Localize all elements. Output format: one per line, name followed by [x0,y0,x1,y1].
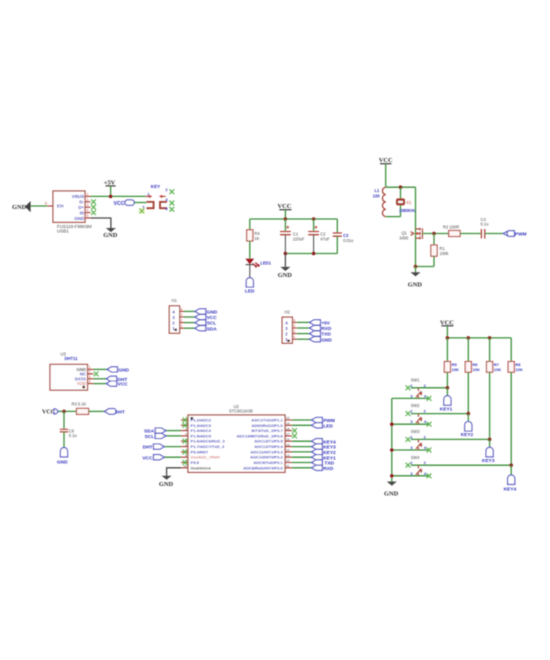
svg-text:KEY3: KEY3 [482,458,495,464]
wire GND flag to EH [31,205,48,207]
wire SDA port to U2 [166,430,181,432]
pin 5 GND [85,214,91,218]
svg-text:6: 6 [45,201,47,205]
wire H1 pin2 to SCL port [184,322,195,324]
svg-text:3: 3 [181,313,183,317]
net port GND (H1) [195,309,218,316]
net port SDA (H1) [195,326,217,333]
net port RXD (H2) [310,325,332,332]
svg-text:ID: ID [80,210,84,215]
svg-text:GND: GND [57,459,68,465]
net port KEY2 (U2) [312,449,337,456]
svg-text:VCC: VCC [42,410,55,416]
node C1 bottom [284,252,288,256]
wire H1 pin3 to VCC port [184,316,195,318]
node R6 top [467,336,471,340]
power VCC top right [379,157,393,187]
svg-text:15: 15 [286,443,290,447]
H2 pin stubs [292,318,296,339]
wire U2 pin13 to KEY1 port [292,456,312,458]
svg-text:X1: X1 [406,200,412,205]
svg-text:SDA: SDA [144,429,155,435]
inductor L1 [373,187,386,216]
wire U2 pin12 to TXD port [292,462,312,464]
svg-text:R2 100R: R2 100R [443,225,459,230]
wire VBUS to +5V node and KEY [91,195,146,197]
no-connect X on D+ [91,205,96,210]
ground keys block [384,482,399,498]
no-connect X on NC [94,372,99,377]
svg-text:SCL: SCL [145,434,155,440]
svg-text:GND: GND [408,282,423,289]
net port DHT (U3) [106,376,127,383]
svg-text:ADC8/RxD/INT4/P3.0: ADC8/RxD/INT4/P3.0 [243,465,283,470]
svg-text:PWM: PWM [515,232,527,238]
svg-text:2: 2 [293,330,295,334]
capacitor C1 [280,219,305,254]
svg-text:ADC1/TxD2/P1.1: ADC1/TxD2/P1.1 [251,418,283,423]
node C2 top [312,217,316,221]
switch SW2 [392,403,469,426]
svg-text:10K: 10K [515,367,522,372]
net port PWM [503,231,526,238]
wire bottom rail of capacitor bank [285,253,337,255]
net port KEY3 (U2) [312,444,337,451]
net port TXD (U2) [312,460,335,467]
svg-text:ADC14/INT2/RxD_2/P3.6: ADC14/INT2/RxD_2/P3.6 [236,433,283,438]
U2 left pin stubs [181,416,188,468]
ground under USB [103,228,118,239]
svg-text:DHT: DHT [143,445,153,451]
net port KEY1 [440,388,453,413]
node SW4/R8 [509,463,513,467]
svg-text:GND: GND [384,490,399,497]
svg-text:GND: GND [12,204,27,211]
svg-text:PWM: PWM [323,418,335,424]
net port SCL (U2) [145,433,166,440]
svg-text:VCC: VCC [114,201,125,207]
svg-text:0.01u: 0.01u [343,238,353,243]
net port VCC at R3 [42,409,59,416]
net port +5V (H2) [310,320,331,327]
no-connect X U2 right pins 18,17 [292,428,297,433]
wire buzzer top rail [386,186,416,188]
no-connect X bottom-left of key [139,208,145,214]
svg-text:ADC13/T1/P3.5: ADC13/T1/P3.5 [254,439,283,444]
svg-text:SW1: SW1 [411,377,421,382]
wire U2 pin19 to LED port [292,424,312,426]
wire U2 pin11 to RXD port [292,467,312,469]
svg-text:1080KHz: 1080KHz [399,208,416,213]
ground under capacitor bank [278,254,293,279]
svg-text:4: 4 [285,320,288,325]
resistor R2 [443,225,460,237]
svg-text:10K: 10K [452,367,459,372]
wire U2 pin15 to KEY3 port [292,446,312,448]
resistor R4 [247,230,261,241]
svg-text:KEY3: KEY3 [323,445,336,451]
svg-text:KEY4: KEY4 [323,439,336,445]
svg-text:KEY2: KEY2 [323,450,336,456]
net port VCC (U2) [142,455,164,462]
node SW1/R5 [446,386,450,390]
svg-text:SDA: SDA [207,326,218,332]
wire C4 to PWM port [485,233,504,235]
svg-text:ADC9/TxD/P3.1: ADC9/TxD/P3.1 [254,460,284,465]
key switch KEY [142,184,168,211]
svg-text:3: 3 [87,203,89,207]
svg-text:3: 3 [285,326,288,331]
ground flag at EH [12,202,31,212]
pin 2 D- [85,198,91,202]
svg-text:TXD: TXD [324,461,334,467]
wire H2 pin3 to RXD port [297,327,310,329]
svg-text:3: 3 [89,375,91,379]
svg-text:2: 2 [87,198,89,202]
node R3/C6 [62,410,66,414]
svg-text:1K: 1K [254,236,259,241]
wire rail to Q1 drain [415,187,417,227]
wire to R4 [249,219,251,230]
svg-text:100k: 100k [440,251,450,256]
wire Q1 gate to R2 [422,233,448,235]
node gate/R1 [432,232,436,236]
svg-text:10K: 10K [473,367,480,372]
svg-text:GND: GND [278,272,293,279]
node SW2/R6 [467,412,471,416]
svg-text:3400: 3400 [399,236,409,241]
svg-text:VCC: VCC [118,382,129,388]
capacitor C4 [481,217,489,239]
wire U2 pin20 to PWM port [292,419,312,421]
svg-text:VDD: VDD [77,381,86,386]
net port LED [245,278,255,295]
svg-text:KEY4: KEY4 [504,487,517,493]
node R5 top [446,336,450,340]
wire VCC port to U2 [164,456,181,458]
svg-text:1: 1 [87,192,89,196]
svg-text:LED: LED [245,289,255,295]
svg-text:2: 2 [285,332,288,337]
wire H2 pin2 to TXD port [297,333,310,335]
svg-text:SW3: SW3 [411,429,421,434]
node SW3 gnd [390,448,394,452]
wire U2 pin14 to KEY2 port [292,451,312,453]
svg-text:INT3/TxD_2/P3.7: INT3/TxD_2/P3.7 [251,428,283,433]
svg-text:VCC: VCC [142,455,153,461]
svg-text:17: 17 [286,432,290,436]
wire top rail of capacitor bank [250,218,337,220]
svg-text:AD02/RxD2/P1.0: AD02/RxD2/P1.0 [252,423,284,428]
net port VCC (H1) [195,314,217,321]
ground under U2 [159,476,174,488]
svg-text:4: 4 [293,318,295,322]
node C2 bottom [312,252,316,256]
svg-text:47uF: 47uF [320,237,330,242]
node SW3/R7 [488,438,492,442]
wire U3 GND pin to port [94,368,108,370]
svg-text:KEY1: KEY1 [440,406,453,412]
svg-text:4: 4 [89,380,91,384]
wire SCL port to U2 [166,435,181,437]
svg-text:2: 2 [89,370,91,374]
svg-text:12: 12 [286,459,290,463]
net port KEY4 [504,465,517,492]
svg-text:P1.3/ADC3: P1.3/ADC3 [191,423,212,428]
svg-text:P1.5/ADC5: P1.5/ADC5 [191,433,212,438]
switch SW3 [392,429,490,452]
capacitor C2 [308,219,330,254]
USB connector USB1 [53,191,92,233]
svg-text:D-: D- [79,200,84,205]
svg-text:VBUS: VBUS [72,194,84,199]
net flag VCC near key [114,200,135,207]
resistor R8 [508,338,523,465]
wire DHT port to U2 [164,446,181,448]
wire R4 to LED1 [249,241,251,259]
net port LED (U2) [312,423,334,430]
svg-text:3: 3 [172,315,175,320]
sensor U3 DHT11 [50,352,88,391]
wire keys top rail [447,337,511,339]
U3 pin stubs [88,365,94,383]
wire VCC flag to key [134,202,146,204]
node C1 top [284,217,288,221]
wire U2 pin16 to KEY4 port [292,440,312,442]
svg-text:USB1: USB1 [57,228,69,233]
svg-text:D+: D+ [78,205,84,210]
svg-text:KEY2: KEY2 [461,432,474,438]
svg-text:11: 11 [286,464,289,468]
wire USB GND pin to ground [91,218,111,228]
svg-text:GND: GND [118,368,129,374]
svg-text:ADC11/INT1/P3.3: ADC11/INT1/P3.3 [250,449,283,454]
wire LED1 to port [249,265,251,278]
no-connect X U2 left pins 1,2,5,7,9 [183,418,188,423]
svg-text:DHT: DHT [115,410,125,416]
svg-text:SW4: SW4 [411,455,421,460]
U2 right pin names [236,418,283,471]
switch SW1 [392,377,448,400]
svg-text:R3 5.1K: R3 5.1K [72,401,87,406]
svg-text:P5.5: P5.5 [191,460,200,465]
wire U2 Gnd pin to ground [167,468,181,476]
net port GND (C6) [57,448,68,466]
wire H1 pin1 to SDA port [184,327,195,329]
net port KEY3 [482,439,495,464]
net port GND (H2) [310,337,333,344]
transistor Q1 [399,228,422,241]
capacitor C6 [60,411,77,447]
MCU U2 STC8G1K08 [188,404,285,472]
svg-text:VCC: VCC [207,315,218,321]
svg-text:ADC10/INT0/P3.2: ADC10/INT0/P3.2 [250,455,283,460]
wire H2 pin4 to +5V port [297,321,310,323]
net port KEY2 [461,414,474,439]
svg-text:GND: GND [74,216,84,221]
svg-text:GND: GND [159,481,174,488]
resistor R5 [444,338,459,388]
wire buzzer bottom rail [386,216,401,218]
svg-text:Vcc/ADC_VRef+: Vcc/ADC_VRef+ [191,455,222,460]
U2 right pin stubs [285,416,292,468]
svg-text:Gnd/AGnd: Gnd/AGnd [191,465,212,470]
svg-text:H2: H2 [285,310,291,315]
wire VCC port to R3 [59,410,77,412]
svg-text:P5.4/RST: P5.4/RST [191,449,209,454]
pin 6 EH [45,201,53,206]
svg-text:GND: GND [103,232,118,239]
svg-text:100: 100 [373,193,381,198]
svg-text:4: 4 [181,307,183,311]
power +5V [104,180,116,197]
net port TXD (H2) [310,331,332,338]
svg-text:RXD: RXD [323,466,334,472]
svg-text:10K: 10K [494,367,501,372]
svg-text:1: 1 [89,365,91,369]
wire U3 VDD pin to port [94,383,107,385]
svg-text:KEY1: KEY1 [323,455,336,461]
net port RXD (U2) [312,465,334,472]
ground under Q1 [408,267,423,289]
svg-text:0.1u: 0.1u [69,433,77,438]
node R7 top [488,336,492,340]
header H1 [169,298,179,333]
net port KEY4 (U2) [312,439,337,446]
net port DHT (U2) [143,444,165,451]
svg-text:220uF: 220uF [293,237,305,242]
svg-text:SW2: SW2 [411,403,421,408]
pin 3 D+ [85,203,91,207]
svg-text:14: 14 [286,448,290,452]
svg-text:GND: GND [321,337,332,343]
power VCC keys block [440,319,454,338]
svg-text:TXD: TXD [321,332,331,338]
resistor R3 [72,401,89,414]
svg-text:LED: LED [323,423,333,429]
svg-text:4: 4 [185,432,187,436]
wire H2 pin1 to GND port [297,338,310,340]
net port PWM (U2) [312,417,335,424]
wire R2 to C4 [460,233,481,235]
svg-text:RXD: RXD [321,326,332,332]
net port SCL (H1) [195,320,216,327]
no-connect X on D- [91,199,96,204]
node X1 top [399,185,403,189]
svg-text:DHT11: DHT11 [65,356,79,361]
resistor R6 [465,338,480,414]
svg-text:4: 4 [87,209,89,213]
wire U3 DATA pin to port [94,378,107,380]
resistor R1 [431,234,449,267]
capacitor C3 [333,219,354,254]
svg-text:0.1u: 0.1u [481,221,489,226]
svg-text:3: 3 [293,324,295,328]
net port DHT (R3) [105,409,125,416]
wire R3 to DHT port [89,410,105,412]
no-connect X on ID [91,210,96,215]
svg-text:P1.6/ADC6/RxD_3: P1.6/ADC6/RxD_3 [191,439,226,444]
net port GND (U3) [107,367,129,374]
svg-text:GND: GND [207,310,218,316]
net port VCC (U3) [106,381,128,388]
H1 pin stubs [180,307,184,328]
svg-text:16: 16 [286,437,290,441]
svg-text:1: 1 [293,335,295,339]
wire keys ground rail [391,398,393,481]
svg-text:19: 19 [286,422,290,426]
junction at VBUS/+5V [109,195,113,199]
resistor R7 [487,338,502,440]
svg-text:13: 13 [286,453,290,457]
svg-text:20: 20 [286,416,290,420]
svg-text:2: 2 [172,321,175,326]
svg-text:VCC: VCC [278,203,292,210]
no-connect X marks right of key [169,189,174,194]
svg-text:EH: EH [57,203,64,208]
svg-text:H1: H1 [172,298,178,303]
svg-text:STC8G1K08: STC8G1K08 [229,408,253,413]
pin 1 VBUS [85,192,91,196]
svg-text:18: 18 [286,427,290,431]
wire Q1 source to ground rail [416,240,435,267]
net port SDA (U2) [144,428,166,435]
svg-text:LED1: LED1 [260,261,271,266]
node SW4 gnd [390,474,394,478]
svg-text:SCL: SCL [207,321,217,327]
svg-text:ADC12/T0/P3.4: ADC12/T0/P3.4 [254,444,283,449]
node SW2 gnd [390,422,394,426]
svg-text:1: 1 [181,324,183,328]
svg-text:KEY: KEY [151,184,160,189]
net port KEY1 (U2) [312,455,337,462]
buzzer X1 [396,187,416,216]
power VCC above capacitor bank [278,203,292,219]
LED LED1 [245,259,271,268]
node source/R1 bottom [414,265,418,269]
svg-text:2: 2 [181,319,183,323]
svg-text:+5V: +5V [321,321,330,327]
header H2 [282,310,292,344]
svg-text:4: 4 [172,309,175,314]
svg-text:P1.2/ADC2: P1.2/ADC2 [191,418,212,423]
svg-text:P1.4/ADC4: P1.4/ADC4 [191,428,212,433]
switch SW4 [392,455,511,478]
svg-text:5: 5 [87,214,89,218]
pin 4 ID [85,209,91,213]
svg-text:P1.7/ADC7/TxD_3: P1.7/ADC7/TxD_3 [191,444,225,449]
U2 left pin names [191,418,226,471]
wire H1 pin4 to GND port [184,310,195,312]
